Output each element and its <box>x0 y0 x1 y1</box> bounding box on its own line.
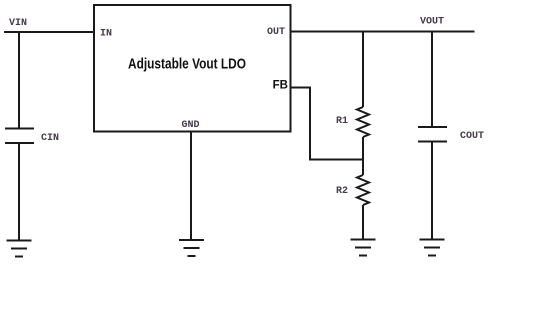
svg-text:R2: R2 <box>336 186 348 197</box>
ground (CIN) <box>7 241 32 257</box>
wire FB elbow <box>291 88 364 160</box>
svg-text:GND: GND <box>181 120 199 131</box>
ground (R2) <box>351 240 376 256</box>
svg-text:FB: FB <box>273 80 288 92</box>
svg-text:VIN: VIN <box>9 18 27 29</box>
wire R1 to node <box>362 137 364 160</box>
wire node to R2 <box>362 160 364 176</box>
IC U1 Adjustable Vout LDO <box>94 5 291 132</box>
wire VIN horizontal <box>4 31 95 33</box>
svg-text:COUT: COUT <box>460 131 484 142</box>
wire OUT to R1 <box>362 32 364 108</box>
svg-text:IN: IN <box>100 29 112 40</box>
svg-text:Adjustable Vout LDO: Adjustable Vout LDO <box>128 56 246 73</box>
svg-text:CIN: CIN <box>41 133 59 144</box>
resistor R2 <box>357 175 369 205</box>
svg-text:R1: R1 <box>336 116 348 127</box>
wire OUT to VOUT <box>291 31 475 33</box>
capacitor CIN <box>5 129 34 144</box>
wire VIN to CIN <box>18 32 20 129</box>
wire VOUT to COUT <box>431 32 433 128</box>
wire CIN to ground <box>18 143 20 240</box>
resistor R1 <box>357 107 369 137</box>
ground (COUT) <box>420 240 445 256</box>
wire COUT to ground <box>431 142 433 240</box>
svg-text:OUT: OUT <box>267 27 285 38</box>
svg-text:VOUT: VOUT <box>420 17 444 28</box>
capacitor COUT <box>418 127 447 142</box>
wire R2 to ground <box>362 205 364 239</box>
ground (GND pin) <box>179 240 204 256</box>
wire GND pin to ground <box>190 132 192 240</box>
